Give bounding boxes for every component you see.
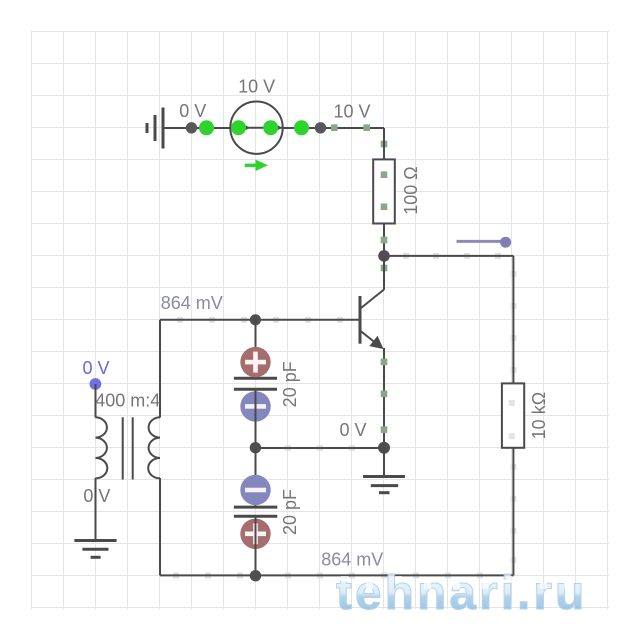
junction node at (256,576)	[250, 570, 261, 581]
wire blue dot to transformer primary	[95, 384, 97, 418]
wire junction (256,320) down to C1	[255, 320, 257, 379]
wire C2 bottom to bottom rail	[255, 516, 257, 575]
collector lead	[383, 256, 385, 290]
wire corner to R1 top	[383, 128, 385, 159]
wire junction (256,448) to emitter junction with faint marks	[256, 445, 385, 451]
junction node at (256,448)	[250, 442, 261, 453]
base wire from cap junction to Q1 base with faint marks	[256, 317, 360, 323]
ground G2 (below emitter)	[363, 477, 405, 493]
transistor Q1 (NPN)	[360, 256, 387, 448]
emitter lead with arrow	[361, 331, 375, 342]
svg-text:10 V: 10 V	[238, 77, 275, 97]
capacitor C1 20 pF (plates)	[234, 378, 277, 389]
current dots (bright green) on source loop	[199, 120, 309, 135]
scope probe lead (purple)	[457, 237, 512, 248]
svg-text:400 m:4: 400 m:4	[95, 391, 160, 411]
ground G3 (below transformer)	[74, 541, 116, 558]
secondary winding (right)	[148, 417, 160, 478]
junction node at emitter ground (384,448)	[378, 442, 390, 454]
current squares on wire to resistor R1	[331, 124, 387, 147]
svg-text:20 pF: 20 pF	[280, 489, 300, 535]
current arrow marks inside V1	[241, 123, 251, 133]
wire R2 bottom to bottom rail with faint charge marks	[510, 448, 516, 576]
current squares inside R1	[381, 171, 388, 210]
wire primary bottom to ground G3	[95, 478, 97, 541]
faint charge marks inside R2	[509, 400, 515, 439]
wire collector node to right (to R2 branch) with faint charge marks	[384, 253, 513, 259]
wire secondary bottom down to bottom rail	[159, 478, 161, 575]
voltage source V1 10V circle	[230, 102, 282, 154]
wire junction down to C2	[255, 448, 257, 507]
transformer T1	[96, 417, 161, 479]
svg-text:20 pF: 20 pF	[280, 361, 300, 407]
core lines	[122, 417, 124, 479]
post node at V1 positive	[315, 122, 326, 133]
junction node at (256,320)	[250, 314, 261, 325]
ground G1 (left-facing, at source negative terminal)	[147, 108, 163, 149]
wire through voltage source	[231, 127, 282, 129]
current square below collector junction	[381, 265, 388, 272]
wire ground to voltage source (y=128)	[163, 127, 231, 129]
svg-text:864 mV: 864 mV	[161, 293, 223, 313]
primary winding (left)	[96, 417, 108, 478]
junction node at collector (384,256)	[378, 250, 390, 262]
resistor R2 10 kOhm (box)	[502, 383, 524, 447]
blue terminal dot	[90, 378, 102, 390]
C2 positive charge symbol	[240, 519, 270, 549]
post node at V1 negative	[186, 122, 197, 133]
svg-text:0 V: 0 V	[83, 486, 110, 506]
wire 864mV rail left section with faint marks	[160, 317, 256, 323]
svg-text:100 Ω: 100 Ω	[401, 166, 421, 215]
resistor R1 100 Ohm (box)	[373, 159, 395, 223]
bottom rail wire with faint marks	[160, 572, 513, 578]
C2 negative charge symbol	[240, 475, 270, 505]
C1 positive charge symbol	[240, 347, 270, 377]
wire R1 bottom to collector node	[383, 224, 385, 257]
base bar	[359, 296, 362, 344]
wire C1 bottom to junction (256,448)	[255, 389, 257, 448]
wire junction to ground G2	[383, 448, 385, 477]
svg-text:10 V: 10 V	[333, 102, 370, 122]
current squares on emitter wire	[381, 359, 388, 366]
current square below R1	[381, 237, 388, 244]
wire voltage source to corner	[282, 127, 384, 129]
capacitor C2 20 pF (plates)	[234, 507, 277, 516]
green current direction arrow under V1	[245, 160, 268, 171]
svg-text:10 kΩ: 10 kΩ	[529, 392, 549, 439]
watermark tehnari.ru	[336, 567, 587, 620]
svg-text:tehnari.ru: tehnari.ru	[336, 567, 587, 620]
svg-text:0 V: 0 V	[339, 420, 366, 440]
svg-text:0 V: 0 V	[82, 358, 109, 378]
wire down left rail to transformer secondary	[159, 320, 161, 418]
wire down right side to R2 with faint charge marks	[510, 256, 516, 384]
svg-text:0 V: 0 V	[179, 101, 206, 121]
C1 negative charge symbol	[240, 391, 270, 421]
